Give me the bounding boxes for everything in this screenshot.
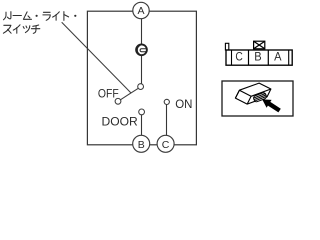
connector pinout: divider B/A bbox=[267, 50, 269, 65]
svg-text:C: C bbox=[162, 139, 170, 151]
leader line from label to switch lever bbox=[62, 22, 131, 93]
ム bbox=[23, 12, 31, 19]
connector pinout: housing bbox=[226, 50, 292, 65]
svg-text:DOOR: DOOR bbox=[102, 115, 139, 129]
lever pivot contact bbox=[138, 84, 144, 90]
ラ bbox=[43, 12, 50, 20]
・ bbox=[36, 15, 38, 17]
connector 3D body bbox=[235, 83, 271, 104]
・ bbox=[74, 15, 76, 17]
wire terminal A to lamp bbox=[141, 19, 143, 45]
terminal C bbox=[157, 135, 174, 152]
wire ON contact to terminal C bbox=[166, 104, 168, 136]
terminal B bbox=[133, 135, 150, 152]
connector pinout: left index tab bbox=[225, 43, 228, 50]
svg-text:ON: ON bbox=[175, 97, 192, 111]
DOOR contact bbox=[139, 109, 145, 115]
イ bbox=[13, 25, 20, 33]
connector pinout: left end wall bbox=[231, 50, 233, 65]
connector pinout: right end wall bbox=[288, 50, 290, 65]
svg-text:A: A bbox=[137, 5, 144, 17]
ト bbox=[64, 12, 69, 21]
ル bbox=[4, 12, 11, 20]
connector view box frame bbox=[222, 81, 293, 116]
ッ bbox=[23, 26, 30, 33]
lamp (room light bulb) bbox=[136, 44, 147, 55]
チ bbox=[31, 25, 39, 33]
svg-text:B: B bbox=[138, 139, 145, 151]
pointer arrow to connector bbox=[262, 99, 281, 112]
terminal A bbox=[133, 2, 149, 18]
connector pinout: lock tab (X box) bbox=[254, 41, 265, 49]
switch body box bbox=[87, 11, 196, 145]
switch lever (to OFF position) bbox=[120, 88, 138, 100]
wire lamp to lever pivot bbox=[141, 55, 143, 84]
ON contact bbox=[164, 99, 169, 104]
svg-text:A: A bbox=[274, 50, 281, 64]
svg-text:B: B bbox=[254, 50, 261, 64]
OFF contact bbox=[115, 98, 121, 104]
connector pinout: divider C/B bbox=[248, 50, 250, 65]
connector 3D terminal block with slots bbox=[253, 92, 267, 102]
ス bbox=[3, 25, 11, 33]
label: room light switch (ルーム・ライト・スイッチ) drawn katakana bbox=[3, 12, 76, 34]
svg-text:OFF: OFF bbox=[98, 87, 119, 101]
ー bbox=[13, 15, 21, 17]
イ bbox=[53, 12, 60, 20]
wire DOOR contact to terminal B bbox=[141, 115, 143, 136]
svg-text:C: C bbox=[235, 50, 243, 64]
